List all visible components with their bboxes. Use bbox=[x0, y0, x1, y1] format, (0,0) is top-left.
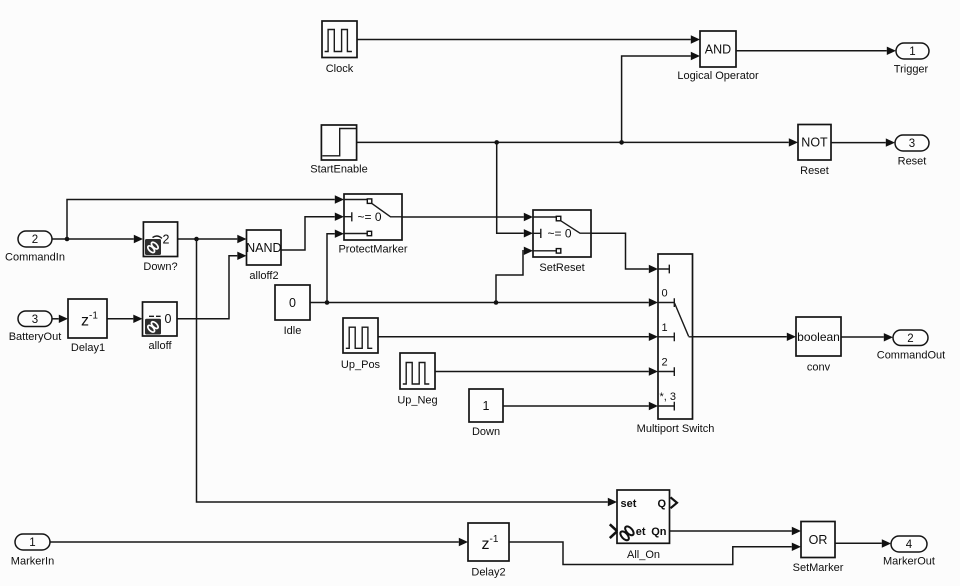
svg-text:BatteryOut: BatteryOut bbox=[9, 331, 62, 343]
svg-text:4: 4 bbox=[906, 539, 913, 551]
block Idle (constant 0) bbox=[275, 285, 310, 337]
svg-text:1: 1 bbox=[909, 46, 915, 58]
wire Up_Neg to Multiport Switch data 2 bbox=[435, 367, 658, 375]
svg-text:StartEnable: StartEnable bbox=[310, 164, 367, 176]
junction at CommandIn branch bbox=[65, 237, 70, 242]
output port 2 CommandOut bbox=[877, 330, 945, 362]
wire CommandIn to Down? bbox=[52, 235, 143, 243]
svg-text:et: et bbox=[636, 526, 646, 538]
wire branch up to ProtectMarker input 3 bbox=[327, 230, 344, 303]
svg-text:1: 1 bbox=[662, 322, 668, 334]
wire branch up to ProtectMarker input 1 bbox=[67, 195, 344, 239]
wire AND to Trigger port bbox=[736, 47, 896, 55]
svg-text:Trigger: Trigger bbox=[894, 64, 929, 76]
junction Idle branch 2 bbox=[494, 300, 499, 305]
block SetReset (switch) bbox=[533, 210, 591, 274]
block AND Logical Operator U-AND bbox=[677, 31, 759, 82]
input port 2 CommandIn bbox=[5, 231, 65, 264]
svg-text:NAND: NAND bbox=[246, 241, 281, 255]
svg-text:SetMarker: SetMarker bbox=[793, 562, 844, 574]
wire branch up to AND input 2 bbox=[622, 52, 700, 143]
wire Idle to Multiport Switch data 0 bbox=[310, 298, 658, 306]
svg-text:0: 0 bbox=[289, 296, 296, 310]
output port 3 Reset bbox=[895, 135, 929, 168]
wire Delay2 to OR input 2 bbox=[509, 542, 801, 565]
svg-text:Reset: Reset bbox=[800, 165, 829, 177]
svg-text:2: 2 bbox=[32, 234, 38, 246]
junction at Down? output bbox=[194, 237, 199, 242]
svg-text:conv: conv bbox=[807, 362, 831, 374]
wire Multiport Switch to boolean conv bbox=[693, 333, 797, 341]
wire Down? to NAND input 1 bbox=[178, 235, 247, 243]
block Up_Pos (pulse generator) bbox=[341, 318, 381, 371]
svg-text:alloff2: alloff2 bbox=[249, 270, 278, 282]
block boolean conv (data type conversion) bbox=[796, 317, 841, 374]
svg-text:MarkerIn: MarkerIn bbox=[11, 556, 54, 568]
wire Clock to AND input 1 bbox=[357, 35, 700, 43]
wire Up_Pos to Multiport Switch data 1 bbox=[378, 333, 658, 341]
svg-text:Idle: Idle bbox=[284, 325, 302, 337]
block OR SetMarker bbox=[793, 522, 844, 575]
wire long branch down to All_On set input bbox=[197, 239, 618, 506]
wire conv to CommandOut port bbox=[841, 333, 893, 341]
svg-text:CommandIn: CommandIn bbox=[5, 252, 65, 264]
wire All_On Qn to OR input 1 bbox=[670, 527, 802, 535]
output port 1 Trigger bbox=[894, 43, 929, 76]
block Delay1 (z^-1) bbox=[68, 299, 107, 354]
wire alloff to NAND input 2 bbox=[177, 252, 247, 319]
svg-text:1: 1 bbox=[29, 537, 35, 549]
wire OR to MarkerOut port bbox=[835, 539, 891, 547]
block Delay2 (z^-1) bbox=[468, 523, 509, 579]
block alloff (linked compare block) bbox=[143, 302, 178, 352]
wire NAND to ProtectMarker input 2 bbox=[281, 213, 344, 251]
wire Delay1 to alloff bbox=[107, 315, 143, 323]
wire StartEnable to NOT (with branches) bbox=[357, 138, 798, 146]
svg-text:2: 2 bbox=[907, 333, 913, 345]
svg-text:Up_Neg: Up_Neg bbox=[397, 395, 437, 407]
wire SetReset to Multiport Switch control input bbox=[591, 233, 658, 273]
junction on StartEnable line at x=496.7 bbox=[494, 140, 499, 145]
svg-text:~= 0: ~= 0 bbox=[547, 227, 571, 241]
svg-text:Up_Pos: Up_Pos bbox=[341, 359, 381, 371]
block ProtectMarker (switch) bbox=[338, 194, 407, 256]
junction on StartEnable line at x=621.6 bbox=[619, 140, 624, 145]
svg-text:boolean: boolean bbox=[797, 330, 840, 344]
svg-text:Q: Q bbox=[657, 498, 666, 510]
wire NOT to Reset port bbox=[831, 138, 895, 146]
svg-text:Clock: Clock bbox=[326, 63, 354, 75]
svg-text:alloff: alloff bbox=[148, 340, 172, 352]
block Down (constant 1) bbox=[469, 389, 503, 438]
svg-text:0: 0 bbox=[662, 288, 668, 300]
svg-text:set: set bbox=[621, 498, 637, 510]
block Clock (pulse generator) bbox=[322, 21, 357, 75]
svg-text:3: 3 bbox=[32, 314, 38, 326]
svg-text:MarkerOut: MarkerOut bbox=[883, 556, 935, 568]
block Multiport Switch bbox=[637, 254, 715, 435]
svg-text:AND: AND bbox=[705, 42, 731, 56]
svg-text:Reset: Reset bbox=[898, 156, 927, 168]
wire BatteryOut to Delay1 bbox=[52, 315, 68, 323]
svg-text:All_On: All_On bbox=[627, 549, 660, 561]
svg-text:OR: OR bbox=[809, 533, 828, 547]
svg-text:Qn: Qn bbox=[651, 526, 667, 538]
svg-text:1: 1 bbox=[483, 399, 490, 413]
block Up_Neg (pulse generator) bbox=[397, 353, 437, 407]
svg-text:*, 3: *, 3 bbox=[660, 391, 677, 403]
input port 1 MarkerIn bbox=[11, 534, 54, 568]
svg-text:Down?: Down? bbox=[143, 261, 177, 273]
svg-text:NOT: NOT bbox=[801, 136, 828, 150]
svg-text:2: 2 bbox=[662, 357, 668, 369]
block NAND (alloff2) bbox=[246, 230, 281, 282]
wire branch down to SetReset input 2 bbox=[497, 142, 533, 237]
output port 4 MarkerOut bbox=[883, 536, 935, 568]
svg-text:Multiport Switch: Multiport Switch bbox=[637, 423, 715, 435]
block StartEnable (step source) bbox=[310, 125, 367, 176]
wire MarkerIn to Delay2 bbox=[50, 538, 468, 546]
svg-text:SetReset: SetReset bbox=[539, 262, 584, 274]
wire Down to Multiport Switch data 3 bbox=[503, 402, 658, 410]
junction Idle branch 1 bbox=[325, 300, 330, 305]
wire ProtectMarker to SetReset input 1 bbox=[402, 213, 533, 221]
svg-text:~= 0: ~= 0 bbox=[357, 210, 381, 224]
wire branch up to SetReset input 3 bbox=[496, 247, 533, 303]
block Down? (linked compare block) bbox=[143, 222, 177, 273]
svg-text:ProtectMarker: ProtectMarker bbox=[338, 244, 407, 256]
block All_On (S-R flip flop, linked) bbox=[610, 490, 677, 561]
svg-text:2: 2 bbox=[163, 233, 170, 247]
svg-text:CommandOut: CommandOut bbox=[877, 350, 945, 362]
block NOT (Reset) bbox=[798, 125, 831, 178]
svg-text:0: 0 bbox=[165, 312, 172, 326]
svg-text:Delay2: Delay2 bbox=[471, 567, 505, 579]
svg-text:Logical Operator: Logical Operator bbox=[677, 70, 759, 82]
svg-text:3: 3 bbox=[909, 138, 915, 150]
input port 3 BatteryOut bbox=[9, 311, 62, 343]
svg-text:Down: Down bbox=[472, 426, 500, 438]
svg-text:Delay1: Delay1 bbox=[71, 342, 105, 354]
